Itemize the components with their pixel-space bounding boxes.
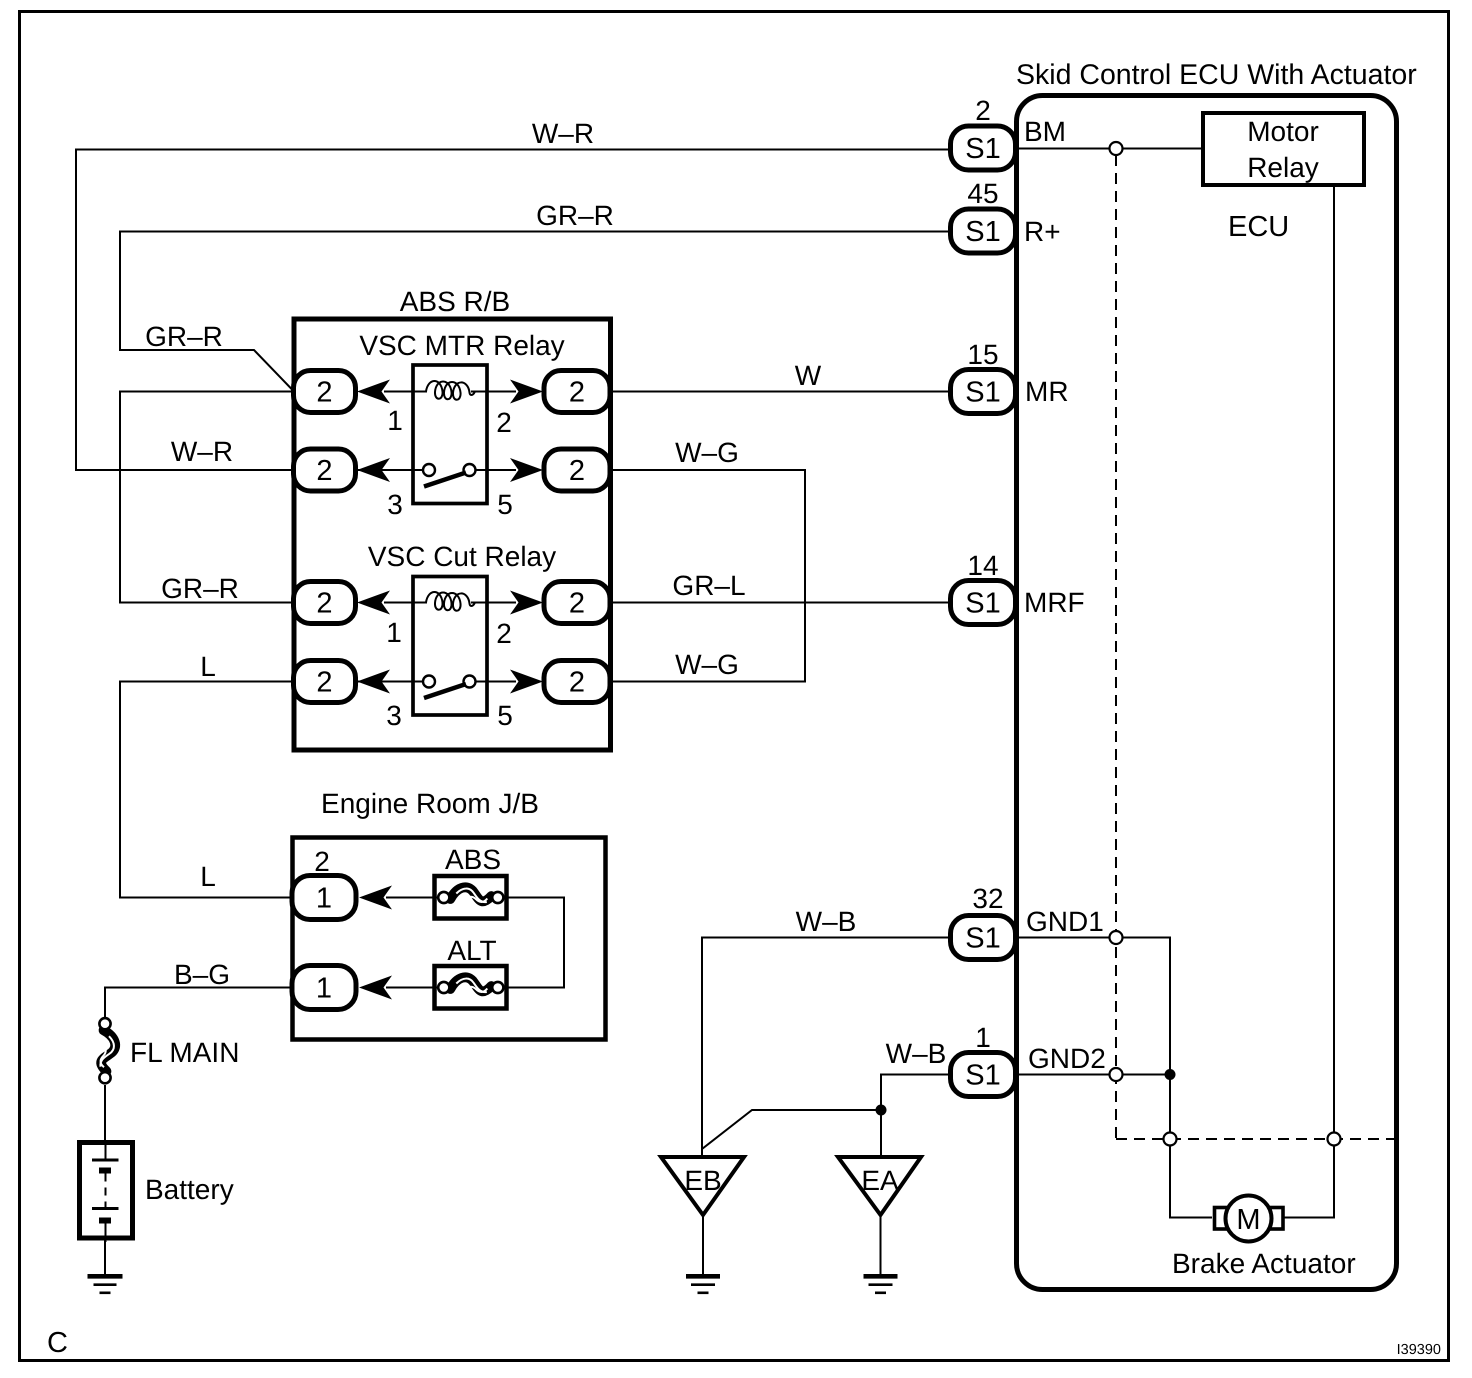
svg-text:W–G: W–G bbox=[675, 649, 739, 680]
wire GND1 into actuator bbox=[1016, 938, 1213, 1218]
svg-text:2: 2 bbox=[569, 588, 585, 620]
svg-text:W–B: W–B bbox=[796, 906, 857, 937]
wire W-B: GND1 to EB bbox=[702, 938, 951, 1158]
svg-text:MRF: MRF bbox=[1024, 587, 1085, 618]
svg-text:S1: S1 bbox=[965, 923, 1000, 955]
wire W-B: GND2 to EA bbox=[881, 1075, 951, 1158]
svg-text:R+: R+ bbox=[1024, 216, 1061, 247]
svg-text:M: M bbox=[1236, 1204, 1260, 1236]
wire coil row inside bbox=[413, 391, 427, 393]
svg-text:S1: S1 bbox=[965, 588, 1000, 620]
Skid Control ECU With Actuator box bbox=[1017, 96, 1397, 1290]
ground symbol battery bbox=[88, 1276, 123, 1293]
svg-text:1: 1 bbox=[387, 405, 403, 436]
motor M of brake actuator bbox=[1215, 1196, 1284, 1242]
svg-text:EB: EB bbox=[684, 1165, 721, 1196]
relay K2 body bbox=[413, 577, 487, 716]
coil of VSC MTR relay bbox=[426, 381, 475, 400]
svg-text:2: 2 bbox=[316, 455, 332, 487]
wire GND2 into actuator bbox=[1016, 1074, 1171, 1076]
wire link VSC MTR pin1 to VSC Cut pin1 bbox=[120, 392, 294, 603]
svg-text:2: 2 bbox=[975, 95, 991, 126]
Engine Room J/B box bbox=[293, 838, 606, 1040]
svg-text:W–R: W–R bbox=[171, 436, 233, 467]
node circle on BM wire bbox=[1110, 142, 1123, 155]
wire battery to ground bbox=[104, 1240, 106, 1274]
svg-text:S1: S1 bbox=[965, 133, 1000, 165]
svg-text:W: W bbox=[795, 360, 822, 391]
svg-text:2: 2 bbox=[314, 846, 330, 877]
wire BM to Motor Relay bbox=[1016, 148, 1204, 150]
svg-text:GR–R: GR–R bbox=[161, 573, 239, 604]
svg-text:I39390: I39390 bbox=[1397, 1342, 1441, 1358]
ground point EB triangle bbox=[661, 1157, 744, 1215]
svg-text:C: C bbox=[47, 1327, 68, 1359]
svg-text:W–G: W–G bbox=[675, 437, 739, 468]
svg-text:ABS R/B: ABS R/B bbox=[400, 286, 510, 317]
svg-text:FL MAIN: FL MAIN bbox=[130, 1037, 239, 1068]
switch blade bbox=[424, 473, 466, 487]
wire coil row inside bbox=[413, 602, 427, 604]
arrow into pin1 bbox=[357, 591, 390, 615]
svg-text:Battery: Battery bbox=[145, 1174, 234, 1205]
arrow into ABS fuse row bbox=[359, 886, 392, 910]
svg-text:W–B: W–B bbox=[886, 1038, 947, 1069]
node circle on GND2 wire bbox=[1110, 1068, 1123, 1081]
oval terminal 2 (pin2 right) bbox=[544, 582, 610, 624]
svg-text:2: 2 bbox=[569, 455, 585, 487]
svg-text:5: 5 bbox=[497, 700, 513, 731]
svg-text:3: 3 bbox=[387, 489, 403, 520]
connector S1 pin 1 (GND2) bbox=[951, 1022, 1106, 1097]
node circle on GND1 wire bbox=[1110, 931, 1123, 944]
svg-text:1: 1 bbox=[316, 973, 332, 1005]
svg-text:1: 1 bbox=[975, 1022, 991, 1053]
wire Motor Relay to motor bbox=[1285, 187, 1335, 1218]
svg-text:Skid Control ECU With Actuator: Skid Control ECU With Actuator bbox=[1016, 59, 1417, 91]
svg-text:5: 5 bbox=[497, 489, 513, 520]
arrow into pin3 bbox=[357, 670, 390, 694]
svg-text:Motor: Motor bbox=[1247, 116, 1319, 147]
svg-text:VSC Cut Relay: VSC Cut Relay bbox=[368, 541, 556, 572]
fusible link FL MAIN bbox=[99, 1018, 115, 1083]
Motor Relay box bbox=[1203, 113, 1364, 185]
oval terminal 2 (pin5 right) bbox=[544, 449, 610, 491]
node circle dashed/GND vertical bbox=[1164, 1133, 1177, 1146]
junction dot EB-EA link bbox=[876, 1105, 887, 1116]
coil of VSC Cut relay bbox=[426, 592, 475, 611]
wire W-R: BM to VSC MTR relay pin 3 bbox=[76, 150, 951, 471]
svg-text:2: 2 bbox=[496, 407, 512, 438]
svg-text:Relay: Relay bbox=[1247, 152, 1319, 183]
svg-text:3: 3 bbox=[386, 700, 402, 731]
svg-text:45: 45 bbox=[967, 178, 998, 209]
switch contacts of VSC MTR relay bbox=[413, 469, 423, 471]
fuse ALT bbox=[435, 966, 507, 1009]
svg-text:VSC MTR Relay: VSC MTR Relay bbox=[359, 330, 564, 361]
wire fuse links bbox=[503, 898, 564, 988]
svg-text:GND1: GND1 bbox=[1026, 906, 1104, 937]
svg-text:1: 1 bbox=[386, 617, 402, 648]
svg-text:S1: S1 bbox=[965, 377, 1000, 409]
dashed shield line vertical bbox=[1115, 155, 1117, 1139]
svg-text:GND2: GND2 bbox=[1028, 1043, 1106, 1074]
wire W: MTR relay pin 2 to MR bbox=[610, 391, 951, 393]
wire L: VSC Cut pin 3 to Engine Room J/B bbox=[120, 682, 294, 898]
arrow out of pin5 bbox=[510, 670, 543, 694]
arrow out of pin2 bbox=[510, 591, 543, 615]
arrow out of pin2 bbox=[510, 380, 543, 404]
connector S1 pin 15 (MR) bbox=[951, 339, 1069, 414]
relay K1 body bbox=[413, 365, 487, 504]
oval terminal 2 (pin3 left) bbox=[294, 661, 356, 703]
arrow into pin3 bbox=[357, 458, 390, 482]
svg-text:15: 15 bbox=[967, 339, 998, 370]
svg-text:2: 2 bbox=[316, 667, 332, 699]
svg-text:1: 1 bbox=[316, 883, 332, 915]
ground point EA triangle bbox=[838, 1157, 921, 1215]
oval terminal 1 (ALT row) bbox=[292, 966, 356, 1010]
oval terminal 2 (pin2 right) bbox=[544, 371, 610, 413]
svg-text:ALT: ALT bbox=[447, 935, 496, 966]
connector S1 pin 45 (R+) bbox=[951, 178, 1061, 253]
wire GR-L: Cut relay pin 2 to MRF bbox=[610, 602, 951, 604]
arrow into ALT fuse row bbox=[359, 976, 392, 1000]
svg-text:L: L bbox=[200, 861, 216, 892]
svg-text:W–R: W–R bbox=[532, 118, 594, 149]
svg-text:14: 14 bbox=[967, 550, 998, 581]
oval terminal 2 (pin1 left) bbox=[294, 371, 356, 413]
ABS R/B box bbox=[294, 319, 611, 750]
wire B-G: battery to J/B bbox=[105, 988, 294, 1018]
fuse ABS bbox=[435, 876, 507, 919]
dashed shield line horizontal bbox=[1116, 1138, 1394, 1140]
wire EB-EA link bbox=[702, 1110, 881, 1149]
svg-text:B–G: B–G bbox=[174, 959, 230, 990]
svg-text:L: L bbox=[200, 651, 216, 682]
svg-text:S1: S1 bbox=[965, 216, 1000, 248]
connector S1 pin 2 (BM) bbox=[951, 95, 1067, 170]
oval terminal 2 (pin1 left) bbox=[294, 582, 356, 624]
svg-text:2: 2 bbox=[316, 377, 332, 409]
switch blade bbox=[424, 684, 466, 698]
oval terminal 1 (ABS row) bbox=[292, 876, 356, 920]
svg-text:ABS: ABS bbox=[445, 844, 501, 875]
arrow into pin1 bbox=[357, 380, 390, 404]
connector S1 pin 14 (MRF) bbox=[951, 550, 1085, 625]
svg-text:2: 2 bbox=[569, 377, 585, 409]
node circle dashed/motor vertical bbox=[1328, 1133, 1341, 1146]
oval terminal 2 (pin5 right) bbox=[544, 661, 610, 703]
svg-text:GR–R: GR–R bbox=[536, 200, 614, 231]
svg-text:GR–R: GR–R bbox=[145, 321, 223, 352]
svg-text:32: 32 bbox=[972, 883, 1003, 914]
wire W-G: MTR relay pin 5 to Cut relay pin 5 bbox=[610, 470, 805, 682]
ground symbol EA bbox=[864, 1276, 898, 1293]
wire EB to ground bbox=[702, 1215, 704, 1274]
wire FL MAIN to battery bbox=[104, 1085, 106, 1142]
ground symbol EB bbox=[686, 1276, 720, 1293]
oval terminal 2 (pin3 left) bbox=[294, 449, 356, 491]
switch contacts of VSC Cut relay bbox=[413, 681, 423, 683]
svg-text:2: 2 bbox=[496, 618, 512, 649]
svg-text:2: 2 bbox=[316, 588, 332, 620]
svg-text:MR: MR bbox=[1025, 376, 1069, 407]
svg-text:ECU: ECU bbox=[1228, 211, 1289, 243]
svg-text:S1: S1 bbox=[965, 1060, 1000, 1092]
svg-text:GR–L: GR–L bbox=[672, 570, 745, 601]
arrow out of pin5 bbox=[510, 458, 543, 482]
svg-text:Engine Room J/B: Engine Room J/B bbox=[321, 788, 539, 819]
wire GR-R: R+ to relay coils bbox=[120, 232, 951, 392]
svg-text:EA: EA bbox=[861, 1165, 899, 1196]
junction dot GND2 bbox=[1165, 1069, 1176, 1080]
svg-text:Brake Actuator: Brake Actuator bbox=[1172, 1248, 1356, 1279]
wire EA to ground bbox=[880, 1215, 882, 1274]
battery box bbox=[80, 1143, 133, 1239]
svg-text:2: 2 bbox=[569, 667, 585, 699]
connector S1 pin 32 (GND1) bbox=[951, 883, 1104, 960]
battery internals bbox=[92, 1143, 119, 1243]
svg-text:BM: BM bbox=[1024, 116, 1066, 147]
